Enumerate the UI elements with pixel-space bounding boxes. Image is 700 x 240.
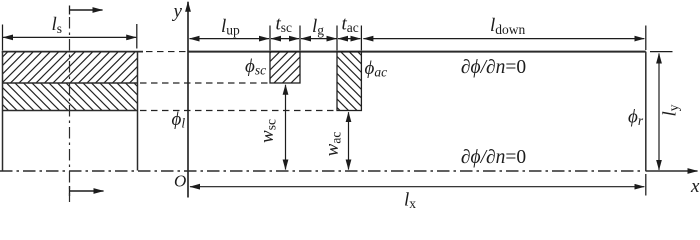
dimension l_down arrow line <box>363 38 644 40</box>
svg-text:tsc: tsc <box>276 14 293 36</box>
dimension l_up arrow line <box>190 38 270 40</box>
dimension l_y arrow line <box>658 54 660 170</box>
tool block left edge <box>2 52 4 171</box>
tool block lower hatched band (abrasive layer) <box>3 83 138 111</box>
svg-text:ϕr: ϕr <box>628 107 644 129</box>
domain right edge <box>645 52 647 172</box>
y axis <box>187 2 189 198</box>
svg-text:y: y <box>172 1 183 22</box>
bottom feed arrow tick <box>69 186 71 196</box>
ac right extension line <box>360 26 362 51</box>
ac left extension line <box>336 26 338 51</box>
svg-text:O: O <box>174 172 186 191</box>
dimension l_g arrow line <box>301 38 337 40</box>
dashed projection line at top level <box>146 51 187 53</box>
svg-text:∂ϕ/∂n=0: ∂ϕ/∂n=0 <box>461 147 526 168</box>
svg-text:tac: tac <box>342 14 359 36</box>
right edge top extension line <box>645 26 647 51</box>
svg-text:lup: lup <box>221 16 240 38</box>
x axis <box>646 170 698 172</box>
svg-text:wac: wac <box>322 132 344 157</box>
svg-text:ls: ls <box>52 14 63 36</box>
tool block hatch bottom line <box>3 110 138 112</box>
svg-text:ϕac: ϕac <box>365 58 388 80</box>
bottom feed arrow <box>70 190 104 192</box>
right edge bottom extension line <box>645 174 647 196</box>
tool block right edge <box>137 52 139 171</box>
svg-text:lg: lg <box>312 16 324 38</box>
dashed projection line at ac bottom level <box>140 110 337 112</box>
horizontal symmetry axis (dash-dot) <box>0 170 643 172</box>
sc electrode rectangle <box>270 52 300 83</box>
svg-text:x: x <box>690 176 700 197</box>
svg-text:wsc: wsc <box>257 119 279 143</box>
tool block upper hatched band (cathode sleeve) <box>3 52 138 83</box>
domain top edge <box>188 51 646 53</box>
top feed arrow <box>70 9 103 11</box>
svg-text:ly: ly <box>660 104 682 116</box>
dimension t_sc arrow line <box>271 38 299 40</box>
tool block top edge <box>2 51 143 53</box>
svg-text:ldown: ldown <box>490 15 526 37</box>
dimension w_ac arrow line <box>348 112 350 169</box>
dimension l_s extension right <box>136 24 138 49</box>
dimension l_x arrow line <box>190 186 644 188</box>
svg-text:ϕsc: ϕsc <box>245 56 266 78</box>
svg-text:∂ϕ/∂n=0: ∂ϕ/∂n=0 <box>461 57 526 78</box>
svg-text:lx: lx <box>404 190 416 210</box>
dimension t_ac arrow line <box>338 38 360 40</box>
tool block middle line <box>3 82 138 84</box>
dimension l_s extension left <box>2 25 4 51</box>
top feed arrow tick <box>69 6 71 15</box>
svg-text:ϕl: ϕl <box>172 109 186 131</box>
dimension w_sc arrow line <box>285 85 287 170</box>
sc right extension line <box>299 26 301 51</box>
dimension l_s arrow line <box>3 36 136 38</box>
dashed projection line at sc bottom level <box>140 82 270 84</box>
tool vertical centerline (dash-dot) <box>69 17 71 202</box>
ac electrode rectangle <box>337 52 361 111</box>
sc left extension line <box>269 26 271 51</box>
l_y top extension tick <box>650 51 673 53</box>
